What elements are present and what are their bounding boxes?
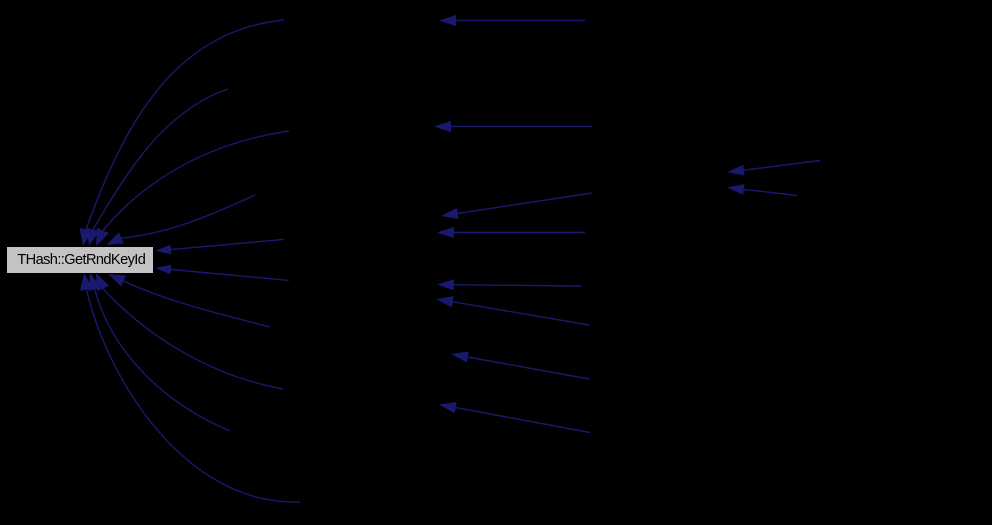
svg-text:THash::GetRndKeyId: THash::GetRndKeyId (17, 252, 145, 268)
edge caller5 -> THash::GetRndKeyId (155, 239, 284, 254)
edge col3 -> caller7 (451, 352, 589, 380)
node THash::GetRndKeyId (7, 247, 154, 274)
edge caller8 -> THash::GetRndKeyId (96, 273, 283, 389)
edge caller3 -> THash::GetRndKeyId (96, 131, 289, 246)
edge caller6 -> THash::GetRndKeyId (155, 265, 289, 281)
edge col3a -> caller4 (441, 193, 592, 219)
edge col3b -> caller4 (437, 227, 585, 238)
edge caller2 -> THash::GetRndKeyId (87, 89, 228, 246)
edge col4a -> col3node (727, 161, 820, 176)
edge col3d -> caller6 (436, 296, 589, 325)
edge col4b -> col3node (727, 184, 797, 195)
edge col3 -> caller1 (439, 15, 585, 26)
edge col3c -> caller6 (437, 279, 581, 290)
edge caller1 -> THash::GetRndKeyId (80, 20, 285, 246)
edge caller10 -> THash::GetRndKeyId (80, 273, 300, 502)
edge caller9 -> THash::GetRndKeyId (88, 273, 230, 431)
edge col3 -> caller3 (434, 121, 592, 132)
edge caller4 -> THash::GetRndKeyId (106, 195, 255, 245)
edge col3 -> caller8 (439, 402, 590, 432)
edge caller7 -> THash::GetRndKeyId (108, 274, 270, 327)
